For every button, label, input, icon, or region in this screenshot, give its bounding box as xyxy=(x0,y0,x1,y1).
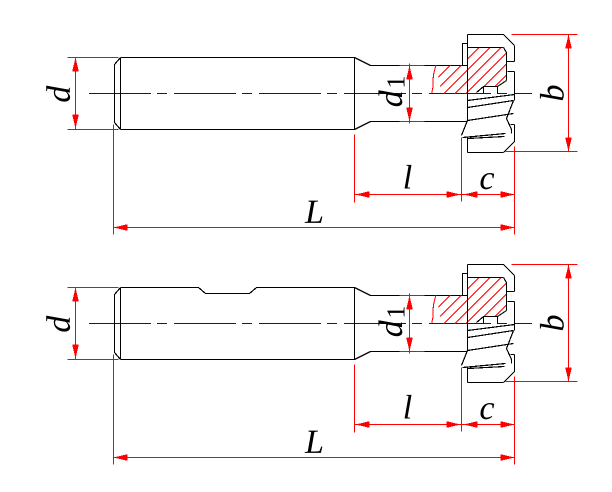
staggered tooth upper-left view a xyxy=(463,44,468,66)
section hatching view a xyxy=(420,27,587,95)
dimension b view b xyxy=(506,265,578,382)
lower view: T-slot cutter shank with drive flat xyxy=(46,257,587,465)
label l view b xyxy=(405,395,412,419)
label b view a xyxy=(540,86,564,101)
label c view a xyxy=(480,173,494,189)
cutter bottom-right outline view a xyxy=(468,125,515,153)
dimension l view a xyxy=(355,135,462,203)
label L view a xyxy=(305,201,323,223)
centerline (axis) view b xyxy=(89,323,532,325)
protruding tooth lower-left view b xyxy=(462,349,512,369)
cutter head outline view b xyxy=(468,265,515,351)
protruding tooth lower-left view a xyxy=(462,119,512,139)
label b view b xyxy=(540,316,564,331)
dimension d1 view b xyxy=(400,294,425,354)
dimension b view a xyxy=(506,35,578,152)
dimension d view a xyxy=(68,58,119,130)
cutter head outline view a xyxy=(468,35,515,121)
section hatching view b xyxy=(420,257,587,325)
label l view a xyxy=(405,165,412,189)
shank body view b xyxy=(115,288,355,360)
label d1 view a xyxy=(378,77,404,106)
staggered tooth upper-left view b xyxy=(463,274,468,296)
dimension d view b xyxy=(68,288,119,360)
label d view a xyxy=(46,86,70,102)
gash flute faces view a xyxy=(477,81,507,94)
cutter bottom-right outline view b xyxy=(468,355,515,383)
shank body view a xyxy=(115,58,355,130)
dimension l view b xyxy=(355,365,462,433)
dimension d1 view a xyxy=(400,64,425,124)
neck (reduced dia d1) view a xyxy=(355,58,468,130)
dimension L view a xyxy=(114,125,515,235)
dimension c view b xyxy=(462,377,515,465)
teeth edges below axis view a xyxy=(468,95,515,121)
broken-section wavy line view b xyxy=(432,295,436,323)
neck (reduced dia d1) view b xyxy=(355,288,468,360)
label d view b xyxy=(46,316,70,332)
gash flute faces view b xyxy=(477,311,507,324)
label d1 view b xyxy=(378,307,404,336)
dimension c view a xyxy=(462,147,515,235)
dimension L view b xyxy=(114,355,515,465)
teeth edges below axis view b xyxy=(468,325,515,351)
label L view b xyxy=(305,431,323,453)
centerline (axis) view a xyxy=(89,93,532,95)
broken-section wavy line view a xyxy=(432,65,436,93)
label c view b xyxy=(480,403,494,419)
upper view: T-slot cutter plain shank xyxy=(46,27,587,235)
